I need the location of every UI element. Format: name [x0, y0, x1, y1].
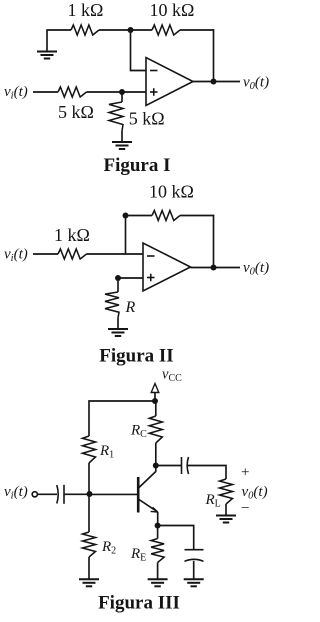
transistor Q1 (NPN)	[137, 477, 140, 513]
wire (output)	[191, 267, 241, 269]
svg-text:5 kΩ: 5 kΩ	[129, 109, 165, 129]
svg-text:v0(t): v0(t)	[243, 75, 269, 93]
wire	[193, 561, 195, 580]
wire	[157, 563, 159, 580]
op-amp U2	[143, 243, 191, 291]
wire (to bypass cap)	[158, 526, 194, 550]
node (non-inverting junction)	[119, 89, 125, 95]
wire	[37, 493, 57, 495]
wire	[118, 277, 143, 279]
wire	[88, 463, 90, 494]
node (base junction)	[87, 491, 93, 497]
wire	[126, 215, 153, 217]
resistor 10 kOhm (feedback)	[152, 25, 180, 35]
wire	[188, 466, 226, 480]
wire (output)	[193, 81, 240, 83]
svg-text:R2: R2	[101, 539, 116, 557]
resistor RC	[149, 416, 162, 443]
svg-text:R1: R1	[99, 443, 114, 461]
resistor R (to ground)	[105, 292, 119, 318]
svg-text:5 kΩ: 5 kΩ	[58, 102, 94, 122]
ground	[112, 141, 132, 143]
node (collector)	[153, 463, 159, 469]
wire	[225, 504, 227, 516]
capacitor C1 (input coupling)	[57, 485, 58, 504]
svg-text:v0(t): v0(t)	[242, 484, 268, 502]
svg-text:Figura II: Figura II	[99, 346, 173, 367]
node (vcc rail)	[152, 398, 158, 404]
wire	[33, 253, 58, 255]
svg-text:10 kΩ: 10 kΩ	[150, 0, 195, 20]
ground	[37, 51, 57, 53]
wire	[46, 29, 71, 31]
ground	[79, 578, 99, 580]
resistor 5 kOhm (series input)	[58, 87, 87, 97]
svg-text:−: −	[241, 501, 249, 517]
resistor 1 kOhm	[71, 25, 99, 35]
svg-text:vCC: vCC	[162, 367, 182, 385]
wire	[213, 215, 215, 268]
svg-text:v0(t): v0(t)	[243, 260, 269, 278]
wire (feedback riser)	[125, 216, 127, 255]
wire	[121, 131, 123, 142]
resistor RE	[151, 539, 164, 563]
node (non-inverting)	[115, 275, 121, 281]
wire	[87, 91, 147, 93]
node (output)	[211, 79, 217, 85]
input terminal	[32, 492, 37, 497]
node (inverting input junction)	[128, 27, 134, 33]
svg-text:Figura III: Figura III	[98, 593, 180, 614]
wire	[180, 29, 214, 31]
resistor R1	[83, 436, 96, 463]
svg-text:R: R	[125, 299, 136, 316]
wire	[156, 465, 181, 467]
svg-text:vi(t): vi(t)	[4, 84, 28, 102]
wire	[88, 557, 90, 579]
wire	[131, 29, 153, 31]
svg-text:vi(t): vi(t)	[4, 484, 28, 502]
wire	[64, 493, 89, 495]
wire	[213, 29, 215, 81]
wire	[87, 253, 144, 255]
wire	[154, 393, 156, 402]
resistor R2	[83, 532, 96, 557]
ground	[108, 328, 128, 330]
wire (collector riser)	[155, 443, 157, 472]
capacitor C2 (output coupling)	[181, 457, 183, 474]
wire	[155, 401, 157, 416]
supply arrow	[151, 384, 159, 393]
wire	[180, 215, 214, 217]
svg-text:vi(t): vi(t)	[4, 247, 28, 265]
svg-text:Figura I: Figura I	[103, 155, 170, 176]
resistor 5 kOhm (to ground)	[109, 102, 123, 131]
svg-text:RE: RE	[130, 546, 146, 564]
svg-text:1 kΩ: 1 kΩ	[54, 225, 90, 245]
wire	[121, 92, 123, 102]
wire	[46, 30, 48, 52]
node (feedback corner)	[123, 213, 129, 219]
node (emitter)	[155, 523, 161, 529]
svg-text:+: +	[241, 465, 249, 481]
resistor 10 kOhm (feedback)	[152, 211, 180, 221]
svg-text:1 kΩ: 1 kΩ	[68, 0, 104, 20]
svg-text:RC: RC	[130, 423, 147, 441]
node (output)	[211, 265, 217, 271]
ground	[184, 578, 204, 580]
wire	[117, 318, 119, 329]
wire	[33, 91, 58, 93]
wire (rail)	[89, 401, 155, 436]
ground	[148, 578, 168, 580]
wire	[157, 512, 159, 526]
ground	[216, 515, 236, 517]
resistor RL	[220, 479, 233, 504]
wire	[117, 278, 119, 292]
wire (to inverting input)	[131, 30, 147, 71]
capacitor CE (emitter bypass)	[185, 549, 204, 551]
wire	[88, 494, 90, 532]
svg-text:10 kΩ: 10 kΩ	[149, 182, 194, 202]
op-amp U1	[146, 58, 193, 106]
wire	[157, 526, 159, 539]
wire	[99, 29, 131, 31]
wire (to base)	[90, 493, 139, 495]
resistor 1 kOhm	[58, 249, 87, 259]
